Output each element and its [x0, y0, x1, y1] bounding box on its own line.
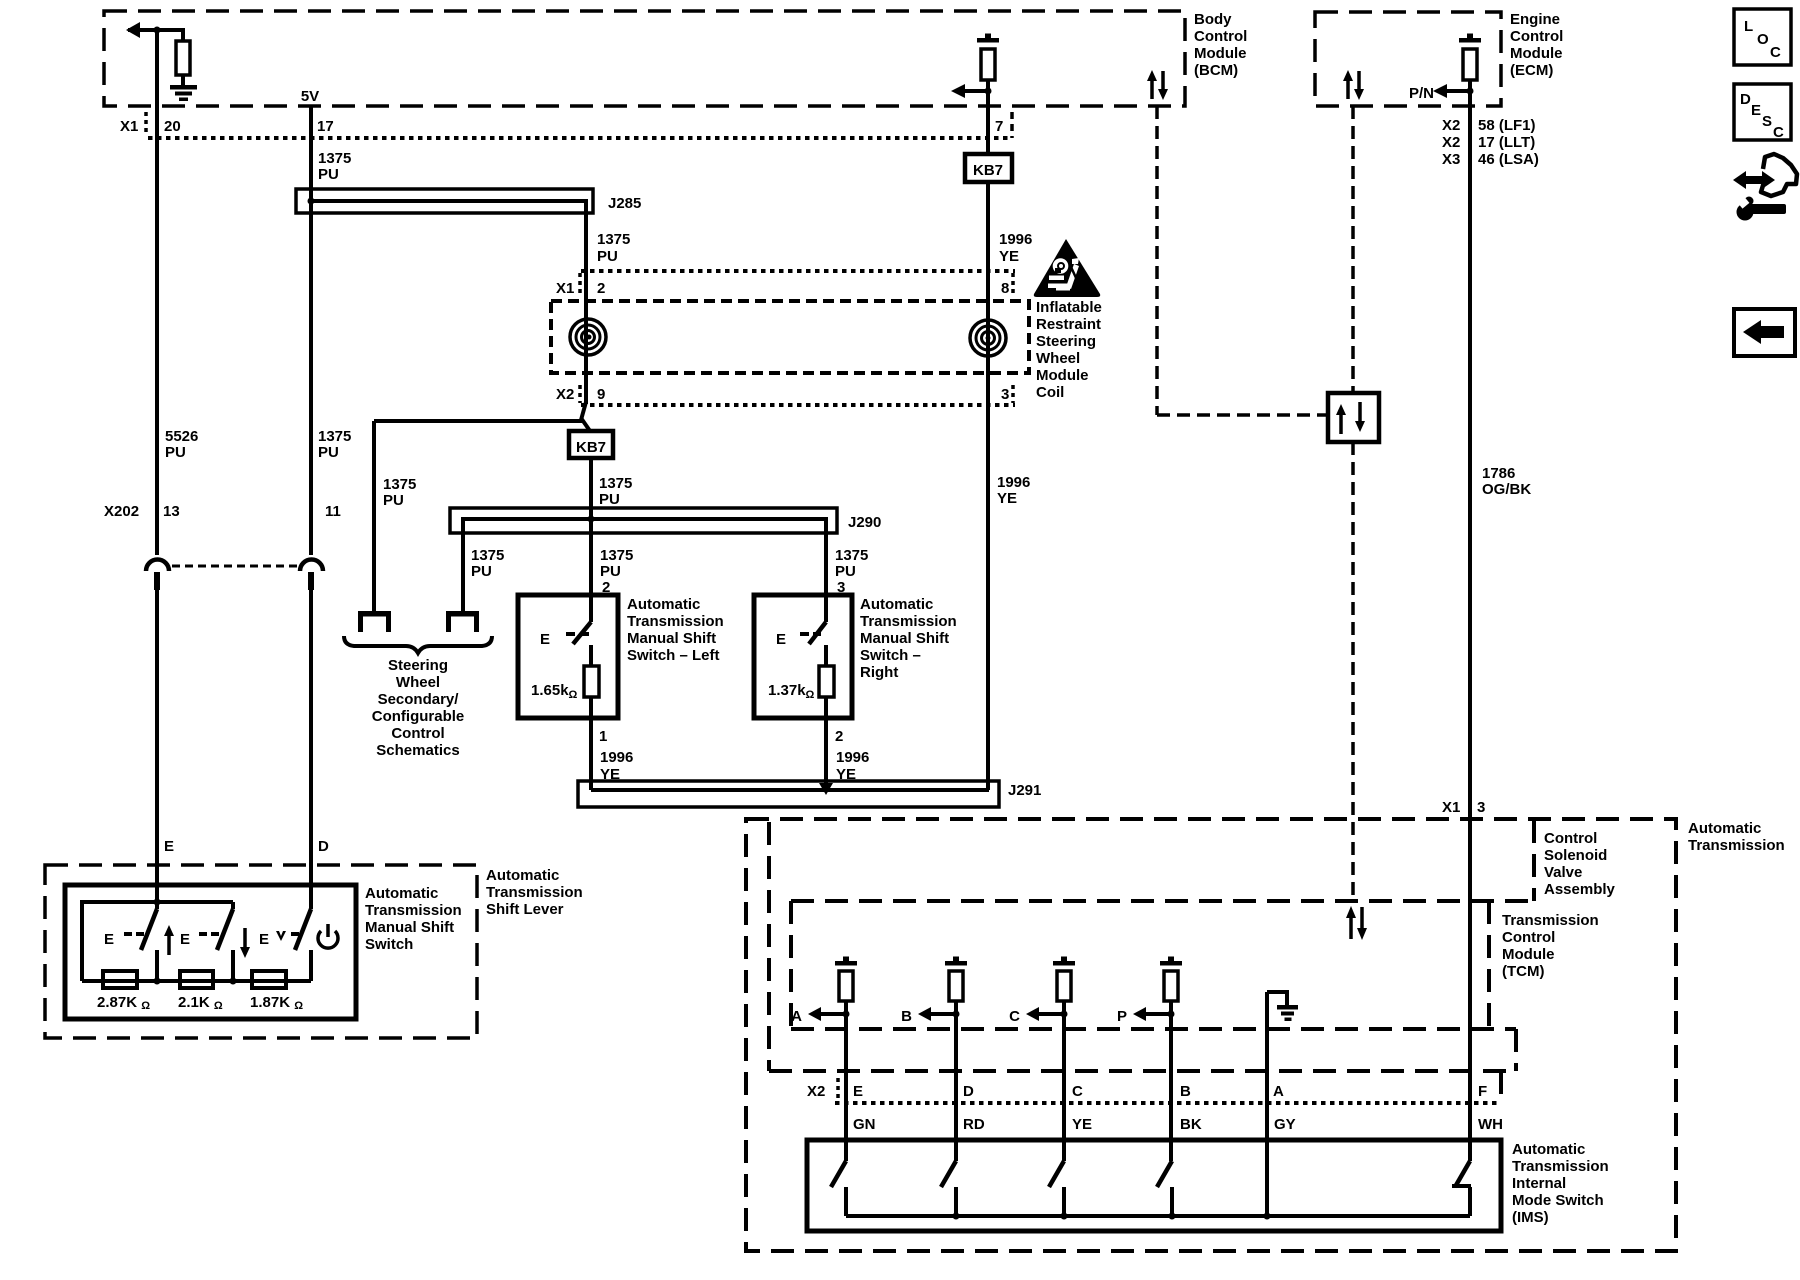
- ECM serial data arrows: [1346, 80, 1350, 99]
- svg-text:Transmission: Transmission: [365, 902, 462, 919]
- svg-text:X2: X2: [556, 386, 574, 403]
- svg-text:1375: 1375: [471, 547, 504, 564]
- serial data line gateway to TCM: [1351, 442, 1355, 900]
- svg-text:P/N: P/N: [1409, 85, 1434, 102]
- Automatic Transmission Manual Shift Switch Right box: [754, 595, 852, 718]
- resistor 1.37k: [819, 666, 834, 697]
- svg-text:Automatic: Automatic: [860, 596, 933, 613]
- Automatic Transmission dashed box: [746, 819, 1676, 1251]
- svg-text:E: E: [180, 931, 190, 948]
- svg-text:1375: 1375: [835, 547, 868, 564]
- svg-text:11: 11: [325, 503, 341, 520]
- DESC icon box: [1734, 84, 1791, 140]
- svg-text:Steering: Steering: [1036, 333, 1096, 350]
- TCM serial data arrows: [1349, 917, 1353, 939]
- ECM solenoid driver output: [1459, 38, 1481, 43]
- Control Solenoid Valve Assembly dashed box: [767, 822, 771, 1071]
- fuse block KB7 (lower): [569, 431, 613, 458]
- BCM internal output arrow (5V ref): [128, 28, 184, 32]
- svg-text:Manual Shift: Manual Shift: [860, 630, 949, 647]
- svg-text:X2: X2: [1442, 134, 1460, 151]
- BCM solenoid driver output: [977, 38, 999, 43]
- IMS bus junction: [1264, 1213, 1271, 1220]
- svg-text:Transmission: Transmission: [860, 613, 957, 630]
- svg-text:PU: PU: [600, 563, 621, 580]
- svg-text:WH: WH: [1478, 1116, 1503, 1133]
- svg-text:3: 3: [1477, 799, 1485, 816]
- IMS bus junction: [1169, 1213, 1176, 1220]
- svg-text:O: O: [1757, 31, 1769, 48]
- svg-text:X202: X202: [104, 503, 139, 520]
- svg-text:Body: Body: [1194, 11, 1232, 28]
- steering wheel control tap wire: [374, 419, 584, 423]
- svg-text:PU: PU: [165, 444, 186, 461]
- svg-text:Steering: Steering: [388, 657, 448, 674]
- svg-text:2: 2: [835, 728, 843, 745]
- svg-text:L: L: [1744, 18, 1753, 35]
- svg-text:(ECM): (ECM): [1510, 62, 1553, 79]
- svg-text:20: 20: [164, 118, 181, 135]
- resistor 2.1K: [180, 971, 213, 988]
- svg-text:5526: 5526: [165, 428, 198, 445]
- svg-text:B: B: [901, 1008, 912, 1025]
- svg-text:BK: BK: [1180, 1116, 1202, 1133]
- steering wheel controls connector symbol left: [358, 611, 391, 617]
- svg-text:1: 1: [599, 728, 607, 745]
- splice pack J290: [450, 508, 837, 533]
- svg-text:Schematics: Schematics: [376, 742, 459, 759]
- BCM serial data arrows: [1150, 80, 1154, 99]
- Automatic Transmission Internal Mode Switch (IMS) box: [807, 1140, 1501, 1231]
- TCM solenoid driver output A: [835, 961, 857, 966]
- Automatic Transmission Manual Shift Switch Left box: [518, 595, 618, 718]
- svg-text:X2: X2: [807, 1083, 825, 1100]
- svg-text:Assembly: Assembly: [1544, 881, 1616, 898]
- Body Control Module (BCM) dashed box: [104, 11, 1185, 106]
- svg-text:2: 2: [597, 280, 605, 297]
- svg-text:Module: Module: [1502, 946, 1555, 963]
- Transmission Control Module (TCM) dashed box: [791, 899, 1534, 903]
- wire: 5526 PU to shift lever pin E: [155, 590, 159, 909]
- serial data line ECM to gateway box: [1351, 106, 1355, 393]
- node: junction dot wire X1-20: [154, 27, 161, 34]
- svg-text:Control: Control: [391, 725, 444, 742]
- svg-text:17: 17: [317, 118, 334, 135]
- svg-text:E: E: [164, 838, 174, 855]
- fuse block KB7 (upper): [965, 154, 1012, 182]
- IMS common bus wire: [846, 1214, 1470, 1218]
- svg-text:Automatic: Automatic: [1688, 820, 1761, 837]
- MSS internal top wire: [82, 900, 233, 904]
- wire: coil X2-9 jog to KB7: [581, 402, 586, 420]
- wire: KB7 down to J290: [589, 458, 593, 622]
- svg-text:Control: Control: [1544, 830, 1597, 847]
- svg-text:X1: X1: [556, 280, 574, 297]
- wire: ECM 1786 OG/BK down to transmission: [1468, 91, 1472, 1161]
- svg-text:7: 7: [995, 118, 1003, 135]
- resistor 1.87K: [252, 971, 286, 988]
- svg-text:Restraint: Restraint: [1036, 316, 1101, 333]
- X1 coil connector row: [581, 269, 1015, 273]
- wire: BCM X1-17 1375 PU down through J285 to X202-11: [309, 106, 313, 555]
- svg-text:Internal: Internal: [1512, 1175, 1566, 1192]
- svg-text:A: A: [1273, 1083, 1284, 1100]
- schematic navigation icon (double arrow + connector outline + wrench): [1733, 171, 1775, 189]
- svg-text:E: E: [1751, 102, 1761, 119]
- svg-text:Control: Control: [1194, 28, 1247, 45]
- switch blade right MSS: [809, 622, 826, 644]
- IMS switch blade F (closed): [1455, 1161, 1470, 1187]
- svg-text:KB7: KB7: [576, 439, 606, 456]
- clockspring coil right: [970, 320, 1006, 356]
- svg-text:YE: YE: [999, 248, 1019, 265]
- svg-text:Mode Switch: Mode Switch: [1512, 1192, 1604, 1209]
- svg-text:Control: Control: [1510, 28, 1563, 45]
- svg-text:1375: 1375: [597, 231, 630, 248]
- svg-text:Coil: Coil: [1036, 384, 1064, 401]
- clockspring coil left: [570, 319, 606, 355]
- svg-text:YE: YE: [1072, 1116, 1092, 1133]
- svg-text:Automatic: Automatic: [627, 596, 700, 613]
- TCM ground symbol: [1265, 992, 1269, 1216]
- P/N arrow ECM output: [1445, 89, 1470, 93]
- svg-text:Automatic: Automatic: [486, 867, 559, 884]
- svg-text:Inflatable: Inflatable: [1036, 299, 1102, 316]
- svg-text:B: B: [1180, 1083, 1191, 1100]
- svg-text:D: D: [963, 1083, 974, 1100]
- MSS resistor ladder wire: [82, 979, 311, 983]
- svg-text:1375: 1375: [600, 547, 633, 564]
- IMS bus junction: [953, 1213, 960, 1220]
- resistor internal BCM pull-down: [181, 28, 185, 42]
- svg-text:46 (LSA): 46 (LSA): [1478, 151, 1539, 168]
- svg-text:13: 13: [163, 503, 180, 520]
- power symbol: [318, 931, 338, 948]
- svg-text:X2: X2: [1442, 117, 1460, 134]
- svg-text:Automatic: Automatic: [365, 885, 438, 902]
- arrow output B: [930, 1012, 956, 1016]
- svg-text:Module: Module: [1036, 367, 1089, 384]
- svg-text:J285: J285: [608, 195, 641, 212]
- svg-text:Solenoid: Solenoid: [1544, 847, 1607, 864]
- svg-text:Manual Shift: Manual Shift: [365, 919, 454, 936]
- svg-text:C: C: [1072, 1083, 1083, 1100]
- svg-text:YE: YE: [997, 490, 1017, 507]
- X1 connector dotted line: [148, 136, 1012, 140]
- svg-text:Valve: Valve: [1544, 864, 1582, 881]
- svg-text:Switch: Switch: [365, 936, 413, 953]
- svg-text:9: 9: [597, 386, 605, 403]
- svg-text:PU: PU: [318, 444, 339, 461]
- steering wheel controls connector symbol right: [446, 611, 479, 617]
- svg-text:(IMS): (IMS): [1512, 1209, 1549, 1226]
- svg-text:Secondary/: Secondary/: [378, 691, 460, 708]
- svg-text:17 (LLT): 17 (LLT): [1478, 134, 1535, 151]
- SRS warning triangle icon: [1034, 239, 1100, 297]
- svg-text:Engine: Engine: [1510, 11, 1560, 28]
- wire: J290 to right MSS pin 3: [824, 519, 828, 622]
- svg-text:1375: 1375: [599, 475, 632, 492]
- svg-text:C: C: [1009, 1008, 1020, 1025]
- splice pack J285: [296, 189, 593, 213]
- wire: BCM X1-20 5526 PU down to X202-13: [155, 28, 159, 555]
- serial data line BCM to gateway box: [1155, 106, 1159, 415]
- TCM solenoid driver output B: [945, 961, 967, 966]
- wire: J290 branch to steering wheel controls connector: [461, 533, 465, 611]
- back arrow icon box: [1734, 309, 1795, 356]
- svg-text:GY: GY: [1274, 1116, 1296, 1133]
- TCM solenoid driver output P: [1160, 961, 1182, 966]
- svg-text:(BCM): (BCM): [1194, 62, 1238, 79]
- svg-text:PU: PU: [471, 563, 492, 580]
- down arrow symbol: [243, 928, 247, 949]
- svg-text:F: F: [1478, 1083, 1487, 1100]
- svg-text:3: 3: [1001, 386, 1009, 403]
- svg-text:E: E: [540, 631, 550, 648]
- Engine Control Module (ECM) dashed box: [1315, 12, 1501, 106]
- svg-text:X1: X1: [1442, 799, 1460, 816]
- svg-text:RD: RD: [963, 1116, 985, 1133]
- pin 7 notch on X1 line: [1010, 112, 1014, 138]
- svg-text:1996: 1996: [997, 474, 1030, 491]
- switch blade left MSS: [573, 622, 591, 644]
- svg-text:Control: Control: [1502, 929, 1555, 946]
- svg-text:E: E: [776, 631, 786, 648]
- arrow output P: [1145, 1012, 1171, 1016]
- splice pack J291: [578, 781, 999, 807]
- wire: J285 to coil X1-2 1375 PU: [584, 213, 588, 404]
- svg-text:1375: 1375: [318, 428, 351, 445]
- svg-text:58 (LF1): 58 (LF1): [1478, 117, 1536, 134]
- svg-text:Transmission: Transmission: [1688, 837, 1785, 854]
- svg-text:C: C: [1770, 44, 1781, 61]
- wire: 1375 PU to shift lever pin D: [309, 590, 313, 909]
- svg-text:E: E: [104, 931, 114, 948]
- brace under steering wheel connectors: [344, 636, 492, 653]
- svg-text:J290: J290: [848, 514, 881, 531]
- svg-text:1375: 1375: [318, 150, 351, 167]
- Automatic Transmission Manual Shift Switch box: [65, 885, 356, 1019]
- ground symbol inside BCM: [170, 85, 197, 90]
- IMS switch blade: [941, 1161, 956, 1187]
- arrow BCM output left: [963, 89, 988, 93]
- svg-text:(TCM): (TCM): [1502, 963, 1544, 980]
- resistor 1.65k: [584, 666, 599, 697]
- svg-text:PU: PU: [599, 491, 620, 508]
- up arrow symbol: [167, 934, 171, 955]
- wire: right MSS pin 2 to J291 with arrow: [824, 697, 828, 783]
- svg-text:Configurable: Configurable: [372, 708, 465, 725]
- svg-text:1996: 1996: [999, 231, 1032, 248]
- svg-text:1786: 1786: [1482, 465, 1515, 482]
- IMS bus junction: [1061, 1213, 1068, 1220]
- svg-text:Automatic: Automatic: [1512, 1141, 1585, 1158]
- svg-text:C: C: [1773, 124, 1784, 141]
- arrow output C: [1038, 1012, 1064, 1016]
- svg-text:Switch – Left: Switch – Left: [627, 647, 720, 664]
- Automatic Transmission Shift Lever dashed box: [45, 865, 477, 1038]
- svg-text:J291: J291: [1008, 782, 1041, 799]
- svg-text:Transmission: Transmission: [1502, 912, 1599, 929]
- svg-text:P: P: [1117, 1008, 1127, 1025]
- wire: left MSS pin 1 to J291: [589, 697, 593, 790]
- svg-text:Right: Right: [860, 664, 898, 681]
- IMS switch blade: [1157, 1161, 1172, 1187]
- IMS switch blade: [1049, 1161, 1064, 1187]
- svg-text:OG/BK: OG/BK: [1482, 481, 1531, 498]
- svg-text:5V: 5V: [301, 88, 319, 105]
- svg-text:1375: 1375: [383, 476, 416, 493]
- arrow output A: [820, 1012, 846, 1016]
- svg-text:Wheel: Wheel: [396, 674, 440, 691]
- wire: KB7 1996 YE down to coil X1-8: [986, 182, 990, 790]
- svg-text:Switch –: Switch –: [860, 647, 921, 664]
- LOC icon box: [1734, 9, 1791, 65]
- TCM solenoid driver output C: [1053, 961, 1075, 966]
- X202 dashed connector linkage line: [172, 565, 298, 568]
- svg-text:GN: GN: [853, 1116, 876, 1133]
- svg-text:PU: PU: [835, 563, 856, 580]
- svg-text:PU: PU: [383, 492, 404, 509]
- Inflatable Restraint Steering Wheel Module Coil dashed box: [551, 301, 1029, 373]
- svg-text:1996: 1996: [600, 749, 633, 766]
- svg-text:Transmission: Transmission: [627, 613, 724, 630]
- svg-text:X1: X1: [120, 118, 138, 135]
- svg-text:Transmission: Transmission: [1512, 1158, 1609, 1175]
- svg-text:Transmission: Transmission: [486, 884, 583, 901]
- svg-text:Wheel: Wheel: [1036, 350, 1080, 367]
- svg-text:PU: PU: [318, 166, 339, 183]
- svg-text:S: S: [1762, 113, 1772, 130]
- IMS switch blade: [831, 1161, 846, 1187]
- svg-text:Module: Module: [1194, 45, 1247, 62]
- resistor 2.87K: [103, 971, 137, 988]
- svg-text:Module: Module: [1510, 45, 1563, 62]
- svg-text:D: D: [1740, 91, 1751, 108]
- svg-text:A: A: [791, 1008, 802, 1025]
- svg-text:E: E: [259, 931, 269, 948]
- svg-text:Shift Lever: Shift Lever: [486, 901, 564, 918]
- svg-text:D: D: [318, 838, 329, 855]
- svg-text:Manual Shift: Manual Shift: [627, 630, 716, 647]
- svg-text:KB7: KB7: [973, 162, 1003, 179]
- serial data gateway box: [1328, 393, 1379, 442]
- svg-text:X3: X3: [1442, 151, 1460, 168]
- svg-text:PU: PU: [597, 248, 618, 265]
- svg-text:E: E: [853, 1083, 863, 1100]
- svg-text:8: 8: [1001, 280, 1009, 297]
- svg-text:1996: 1996: [836, 749, 869, 766]
